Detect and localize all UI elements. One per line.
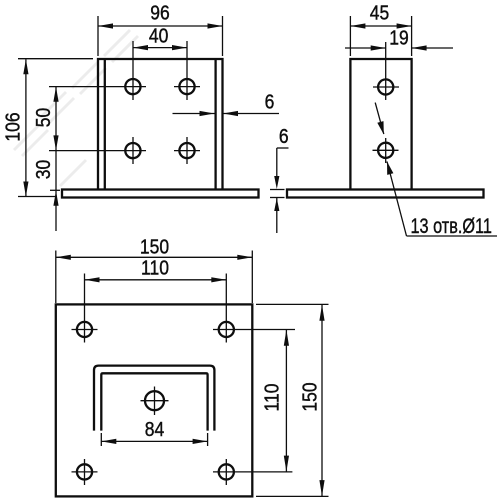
svg-text:50: 50 xyxy=(32,108,54,127)
svg-text:150: 150 xyxy=(298,382,320,411)
svg-text:96: 96 xyxy=(150,1,169,23)
svg-text:45: 45 xyxy=(370,1,389,23)
svg-text:40: 40 xyxy=(149,24,168,46)
svg-text:84: 84 xyxy=(145,418,164,440)
svg-text:13 отв.Ø11: 13 отв.Ø11 xyxy=(411,214,492,237)
svg-text:150: 150 xyxy=(140,235,169,257)
svg-text:6: 6 xyxy=(265,90,275,112)
svg-text:6: 6 xyxy=(279,125,289,147)
svg-text:110: 110 xyxy=(141,256,169,278)
svg-text:106: 106 xyxy=(1,112,23,141)
svg-text:30: 30 xyxy=(32,160,54,179)
svg-text:19: 19 xyxy=(389,26,408,48)
svg-text:110: 110 xyxy=(261,384,283,412)
